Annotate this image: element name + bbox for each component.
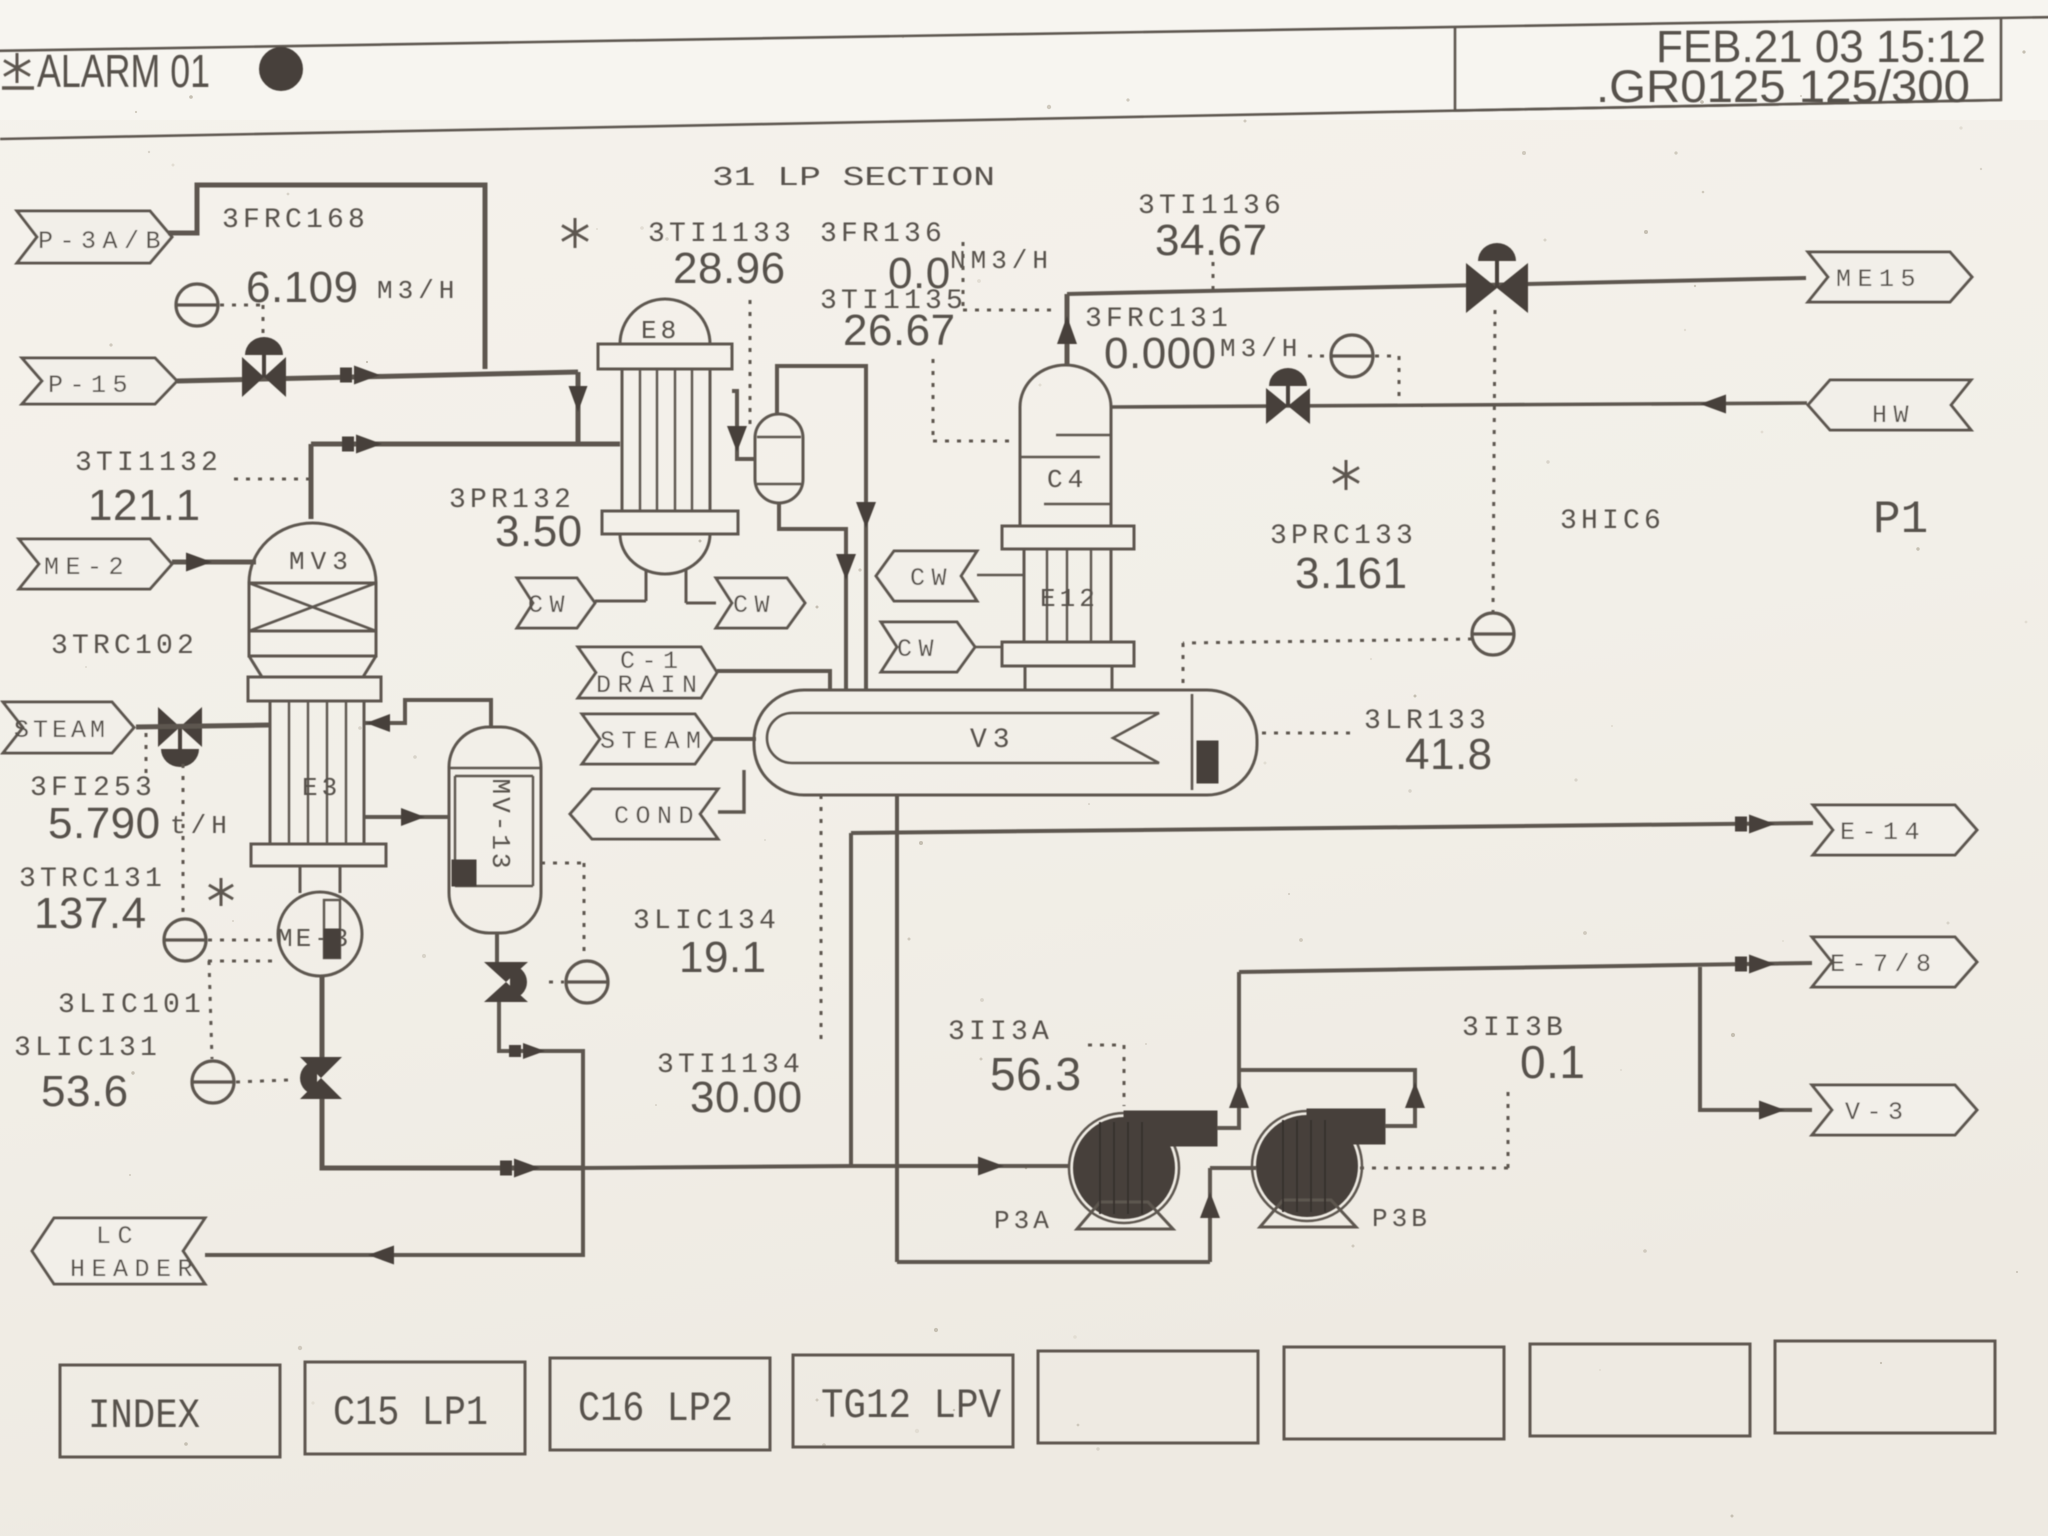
signal dash to 3TRC131 bubble	[182, 764, 185, 917]
svg-text:56.3: 56.3	[990, 1048, 1082, 1100]
svg-text:V3: V3	[970, 725, 1016, 756]
wire E3 to MV-13 vapor	[364, 700, 491, 727]
signal dash 3TRC131 to ME-3	[208, 939, 276, 942]
signal dash 3PRC133 to V3	[1183, 639, 1472, 643]
tag LC HEADER	[32, 1218, 205, 1284]
svg-text:.GR0125 125/300: .GR0125 125/300	[1596, 61, 1970, 112]
svg-text:E3: E3	[302, 773, 341, 803]
tag ME15	[1808, 252, 1972, 302]
tag STEAM into V3	[582, 714, 713, 764]
tag P-15	[22, 358, 177, 404]
svg-text:INDEX: INDEX	[88, 1392, 200, 1440]
wire HW line	[1111, 403, 1807, 407]
svg-text:0.1: 0.1	[1520, 1036, 1585, 1088]
tag P-3A/B	[17, 211, 172, 263]
exchanger E8 dome	[620, 299, 710, 344]
instrument bubble 3PRC133	[1472, 613, 1514, 655]
button blank 5	[1038, 1351, 1258, 1443]
signal dash valve to bubble	[549, 981, 564, 984]
wire C-1 DRAIN to V3	[717, 671, 830, 690]
svg-text:3II3A: 3II3A	[948, 1017, 1053, 1048]
svg-text:HW: HW	[1872, 401, 1915, 430]
svg-text:E-7/8: E-7/8	[1830, 950, 1938, 979]
tag CW upper at E12	[876, 551, 977, 601]
exchanger E8 nozzles	[645, 569, 648, 601]
alarm status icon	[16, 53, 19, 83]
svg-text:CW: CW	[733, 591, 776, 620]
button blank 6	[1284, 1347, 1504, 1439]
signal dash 3TI1133	[749, 300, 752, 430]
vessel V3 inner outline	[767, 713, 1159, 763]
svg-text:E-14: E-14	[1840, 818, 1926, 847]
column C4 trays	[1056, 434, 1111, 437]
exchanger E12 bottom flange	[1002, 642, 1134, 666]
svg-text:P1: P1	[1873, 494, 1928, 546]
wire MV-13 outlet to header	[499, 1002, 583, 1168]
svg-text:E8: E8	[641, 316, 680, 346]
svg-text:28.96: 28.96	[673, 244, 786, 293]
wire ME15 line	[1067, 278, 1806, 294]
svg-text:V-3: V-3	[1845, 1098, 1910, 1127]
asterisk near 3PRC133	[1345, 460, 1348, 490]
bulb ME-3 thermowell	[324, 900, 340, 958]
asterisk near 3TRC131	[220, 878, 223, 906]
signal dash 3FR136	[962, 242, 965, 310]
svg-text:26.67: 26.67	[843, 306, 956, 355]
vessel MV3 dome	[249, 523, 376, 583]
svg-text:MV3: MV3	[289, 547, 354, 577]
wire P3B discharge	[1239, 1070, 1415, 1126]
date-time box	[1455, 18, 2001, 111]
exchanger E3 neck	[299, 866, 302, 893]
tag CW lower at E12	[881, 622, 975, 672]
pump P3A hatch	[1099, 1122, 1101, 1214]
control valve P-15	[242, 357, 264, 397]
column C4 shell	[1019, 407, 1022, 526]
vessel MV3 skirt flange	[248, 677, 381, 701]
svg-text:3FRC168: 3FRC168	[222, 205, 369, 236]
valve ME15 line	[1466, 263, 1497, 313]
vessel MV3 lower band	[249, 631, 376, 656]
signal dash STEAM flow	[145, 733, 148, 774]
vessel V3 level mark	[1197, 741, 1218, 783]
svg-text:STEAM: STEAM	[14, 716, 109, 745]
exchanger E3 bottom flange	[251, 844, 386, 866]
valve HW line	[1266, 388, 1288, 424]
wire P-15 corner down to E8 feed	[576, 372, 581, 446]
exchanger E8 bottom dome	[620, 534, 710, 574]
wire to E-7/8	[1239, 963, 1812, 972]
tag CW left of E8	[517, 578, 595, 628]
wire outlet down to header	[322, 1099, 583, 1168]
valve MV-13 outlet	[484, 962, 528, 982]
svg-text:C4: C4	[1047, 465, 1088, 495]
instrument bubble 3TRC131	[164, 919, 206, 961]
svg-text:STEAM: STEAM	[600, 727, 708, 756]
tag V-3	[1812, 1085, 1977, 1135]
exchanger E8 bottom channel	[602, 511, 738, 534]
svg-text:6.109: 6.109	[246, 263, 359, 312]
pump P3A	[1069, 1113, 1179, 1223]
tag C-1 DRAIN	[578, 647, 717, 698]
svg-text:5.790: 5.790	[48, 799, 161, 848]
vessel V3 head seam	[1191, 694, 1194, 790]
header top rule	[0, 17, 2048, 51]
tag E-14	[1813, 805, 1977, 855]
wire LC header branch	[205, 1168, 583, 1255]
signal dash 3TI1136	[1212, 262, 1215, 290]
svg-text:CW: CW	[528, 591, 571, 620]
button C15 LP1	[305, 1362, 525, 1454]
svg-text:19.1: 19.1	[679, 933, 767, 982]
exchanger E12 tubes	[1046, 549, 1048, 642]
svg-text:0.000: 0.000	[1104, 329, 1217, 378]
exchanger E12 nozzles	[1024, 666, 1027, 690]
wire E3 to MV-13 liquid	[364, 815, 449, 819]
svg-text:NM3/H: NM3/H	[950, 246, 1053, 276]
signal dash 3FRC168 to valve	[220, 304, 263, 307]
svg-text:HEADER: HEADER	[70, 1255, 199, 1284]
svg-text:3HIC6: 3HIC6	[1560, 506, 1665, 537]
button INDEX	[60, 1365, 280, 1457]
vessel MV-13 shell	[449, 727, 541, 933]
asterisk near 3TI1133	[574, 218, 577, 248]
wire STEAM to V3	[713, 737, 756, 741]
exchanger E12 shell	[1023, 549, 1026, 642]
tag STEAM west	[3, 702, 134, 753]
svg-text:137.4: 137.4	[34, 889, 147, 938]
wire ME-3 outlet	[320, 976, 325, 1058]
svg-text:DRAIN: DRAIN	[596, 671, 704, 700]
tag HW	[1808, 380, 1971, 430]
signal dot ME15 valve down	[1493, 310, 1495, 612]
wire MV3 overhead to E8	[311, 442, 620, 447]
signal dash 3II3B	[1360, 1167, 1508, 1170]
wire accumulator top run	[777, 366, 866, 690]
wire P-15 line	[177, 372, 578, 381]
svg-text:C15 LP1: C15 LP1	[333, 1389, 488, 1437]
wire accumulator bottom run	[779, 503, 846, 690]
wire suction header to P3A	[583, 1166, 851, 1168]
instrument bubble 3FRC168	[176, 284, 218, 326]
wire 3FRC131 riser	[1065, 294, 1070, 366]
tag COND	[570, 789, 718, 839]
column C4 dome	[1020, 365, 1111, 407]
wire P3B suction	[1210, 1166, 1256, 1170]
svg-text:3PRC133: 3PRC133	[1270, 521, 1417, 552]
instrument bubble MV-13 LV	[566, 961, 608, 1003]
svg-text:53.6: 53.6	[41, 1067, 129, 1116]
wire CW upper to E12	[977, 574, 1024, 577]
svg-text:3TRC102: 3TRC102	[51, 631, 198, 662]
tag E-7/8	[1812, 937, 1977, 987]
svg-text:P-15: P-15	[48, 371, 134, 400]
svg-text:M3/H: M3/H	[1220, 334, 1302, 364]
svg-text:P-3A/B: P-3A/B	[38, 227, 167, 256]
vessel V3 shell	[754, 690, 1257, 795]
svg-text:3.161: 3.161	[1295, 549, 1408, 598]
svg-text:3LIC131: 3LIC131	[14, 1033, 161, 1064]
wire V-3 branch	[1700, 967, 1812, 1110]
wire CW to E8	[595, 600, 646, 603]
pump P3B hatch	[1282, 1120, 1284, 1212]
svg-text:P3A: P3A	[994, 1206, 1053, 1236]
svg-text:30.00: 30.00	[690, 1073, 803, 1122]
signal dash 3LR133	[1262, 732, 1356, 735]
wire pump bottom header	[897, 1260, 1210, 1264]
drum accumulator seams	[757, 436, 801, 438]
valve STEAM line	[158, 707, 180, 747]
exchanger E8 shell	[621, 369, 624, 511]
vessel MV3 cone	[249, 656, 262, 677]
wire CW lower to E12	[975, 646, 1002, 649]
button C16 LP2	[550, 1358, 770, 1450]
tag ME-2	[19, 539, 172, 589]
svg-text:LC: LC	[96, 1222, 139, 1251]
svg-text:MV-13: MV-13	[485, 778, 515, 871]
wire E8 to CW	[686, 602, 716, 605]
wire P-3A/B to header of E8 feed	[168, 185, 485, 369]
exchanger E12 top flange	[1002, 526, 1134, 549]
signal dash 3II3A	[1088, 1044, 1124, 1047]
exchanger E8 tubes	[639, 369, 641, 511]
svg-text:M3/H: M3/H	[377, 276, 459, 306]
exchanger E3 shell	[269, 701, 272, 844]
wire MV-13 outlet	[495, 933, 499, 962]
wire V3 to COND	[718, 770, 744, 812]
wire V3 to E-14	[851, 823, 1813, 833]
wire V3 bottom outlet	[895, 795, 899, 1262]
svg-text:ALARM 01: ALARM 01	[37, 45, 210, 97]
pump P3B	[1252, 1111, 1362, 1221]
svg-text:C16 LP2: C16 LP2	[578, 1385, 733, 1433]
exchanger E8 top channel	[598, 344, 732, 369]
svg-text:3TI1132: 3TI1132	[75, 448, 222, 479]
svg-text:3LIC101: 3LIC101	[58, 990, 205, 1021]
drum accumulator shell	[755, 414, 803, 503]
svg-text:3FR136: 3FR136	[820, 219, 946, 250]
wire E8 to accumulator	[732, 391, 755, 459]
angle valve ME-3 outlet	[300, 1057, 342, 1078]
vessel MV-13 level mark	[452, 860, 476, 886]
button TG12 LPV	[793, 1355, 1013, 1447]
svg-text:CW: CW	[897, 635, 940, 664]
wire P3A discharge	[1217, 972, 1239, 1128]
bulb ME-3	[278, 892, 362, 976]
svg-text:COND: COND	[614, 802, 700, 831]
svg-text:ME-2: ME-2	[44, 553, 130, 582]
svg-text:CW: CW	[910, 564, 953, 593]
svg-text:34.67: 34.67	[1155, 216, 1268, 265]
instrument bubble 3FRC131	[1331, 335, 1373, 377]
svg-text:41.8: 41.8	[1405, 730, 1493, 779]
alarm indicator dot	[260, 48, 302, 90]
signal dash 3LIC101 row	[208, 960, 276, 963]
signal dash 3TI1134	[820, 795, 823, 1041]
exchanger E3 tubes	[288, 701, 290, 844]
svg-text:E12: E12	[1040, 584, 1099, 614]
svg-text:ME15: ME15	[1836, 265, 1922, 294]
signal dash 3LIC131 to valve	[236, 1080, 288, 1082]
svg-text:3.50: 3.50	[495, 507, 583, 556]
button blank 7	[1530, 1344, 1750, 1436]
header second rule	[0, 100, 2001, 139]
wire E-14 riser	[849, 833, 853, 1166]
wire STEAM to E3	[136, 725, 270, 727]
vessel MV3 packing section	[249, 583, 376, 631]
signal dash MV-13 level	[541, 862, 584, 865]
svg-text:P3B: P3B	[1372, 1204, 1431, 1234]
signal dash 3TI1135	[932, 359, 935, 441]
vessel MV-13 seams	[449, 767, 541, 770]
svg-text:t/H: t/H	[170, 811, 232, 841]
tag CW right of E8	[716, 578, 805, 628]
button blank 8	[1775, 1341, 1995, 1433]
signal dash 3TI1132	[234, 478, 311, 481]
signal dash 3FRC131	[1308, 355, 1329, 358]
wire ME-2 into MV3	[172, 560, 256, 565]
instrument bubble 3LIC131	[192, 1061, 234, 1103]
svg-text:TG12 LPV: TG12 LPV	[821, 1382, 1001, 1430]
svg-text:121.1: 121.1	[88, 481, 201, 530]
svg-text:31 LP SECTION: 31 LP SECTION	[712, 164, 995, 194]
